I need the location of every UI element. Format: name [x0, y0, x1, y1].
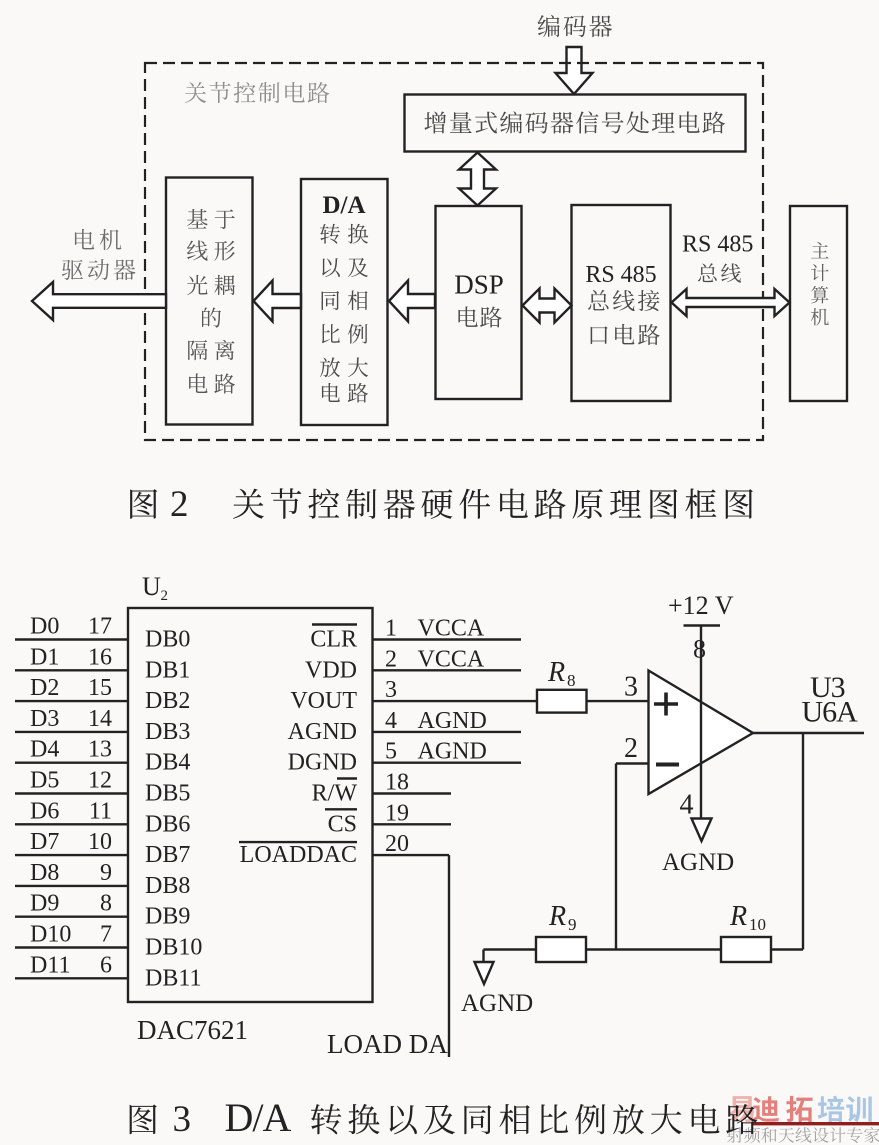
svg-text:3: 3 [624, 672, 638, 703]
svg-text:13: 13 [88, 737, 112, 763]
wire: data line D6 pin 11 [15, 798, 128, 824]
pin label DGND (pin 5) [288, 750, 357, 776]
pin label DB0 [145, 627, 190, 653]
svg-text:D11: D11 [30, 952, 70, 978]
wire: data line D10 pin 7 [15, 922, 128, 948]
block: incremental encoder signal processing circuit [405, 95, 746, 152]
svg-text:8: 8 [567, 671, 576, 690]
wire: inverting input net [616, 764, 649, 950]
caption figure 3 [130, 1095, 758, 1140]
svg-text:AGND: AGND [461, 990, 533, 1017]
wire: feedback net R9/R10 [484, 948, 804, 950]
wire: data line D0 pin 17 [15, 614, 128, 640]
svg-text:17: 17 [88, 614, 112, 640]
svg-text:R: R [548, 901, 566, 932]
svg-text:DSP: DSP [454, 270, 504, 300]
joint control circuit dashed boundary [145, 63, 763, 440]
svg-text:2: 2 [385, 646, 397, 672]
svg-text:DB10: DB10 [145, 935, 202, 961]
wire: encoder input arrow [556, 47, 593, 94]
svg-text:LOAD DA: LOAD DA [327, 1029, 448, 1059]
pin label DB7 [145, 842, 190, 868]
watermark slogan [727, 1127, 879, 1143]
ground: AGND left [461, 950, 533, 1018]
wire: double arrow DSP <-> RS485 [523, 289, 572, 323]
wire: pin 4 AGND [373, 708, 522, 734]
wire: op-amp output [753, 732, 864, 734]
wire: LOADDAC pin 20 net to LOAD DA [448, 855, 450, 1057]
label: motor driver 电机驱动器 [62, 229, 136, 280]
svg-text:AGND: AGND [418, 739, 487, 765]
power: +12 V supply [668, 591, 734, 819]
svg-text:D8: D8 [30, 860, 59, 886]
wire: data line D7 pin 10 [15, 829, 128, 855]
wire: pin 5 AGND [373, 739, 522, 765]
label: R10 [729, 901, 766, 934]
svg-text:DB2: DB2 [145, 688, 190, 714]
svg-text:VCCA: VCCA [418, 616, 485, 642]
svg-text:19: 19 [385, 800, 409, 826]
wire: pin 3 [373, 677, 538, 703]
label: U3 U6A [802, 671, 859, 729]
block: DSP circuit [436, 206, 522, 399]
label: 关节控制电路 [185, 82, 330, 103]
svg-text:2: 2 [624, 733, 638, 764]
svg-text:U6A: U6A [802, 696, 859, 729]
pin label DB2 [145, 688, 190, 714]
svg-text:AGND: AGND [288, 719, 357, 745]
svg-text:DB1: DB1 [145, 657, 190, 683]
svg-text:LOADDAC: LOADDAC [240, 842, 357, 868]
label: encoder 编码器 [538, 15, 612, 37]
wire: arrow to motor driver [32, 282, 166, 320]
svg-text:VDD: VDD [305, 657, 357, 683]
svg-text:D/A: D/A [322, 192, 365, 219]
pin label CS (pin 19) [325, 809, 357, 837]
wire: output to feedback [802, 733, 804, 950]
svg-text:DB9: DB9 [145, 904, 190, 930]
label: op-amp pin 8 [693, 635, 706, 664]
svg-text:D2: D2 [30, 675, 59, 701]
svg-text:D10: D10 [30, 922, 71, 948]
svg-text:10: 10 [88, 829, 112, 855]
svg-text:1: 1 [385, 616, 397, 642]
svg-text:D4: D4 [30, 737, 59, 763]
svg-text:DB11: DB11 [145, 965, 201, 991]
label: U2 [142, 572, 168, 604]
svg-text:D5: D5 [30, 768, 59, 794]
wire: arrow isolation <- D/A [254, 281, 302, 322]
pin label LOADDAC (pin 20) [239, 842, 357, 868]
label: RS 485 bus [682, 232, 753, 283]
svg-text:D0: D0 [30, 614, 59, 640]
svg-text:10: 10 [749, 915, 766, 934]
wire: RS485 bus double arrow [672, 289, 790, 316]
svg-text:U: U [142, 572, 161, 601]
svg-text:R/W: R/W [312, 781, 358, 807]
wire: pin 20 [373, 831, 450, 857]
label: R8 [547, 657, 576, 690]
svg-text:DB4: DB4 [145, 750, 190, 776]
wire: pin 18 [373, 770, 452, 796]
resistor R9 [536, 937, 586, 962]
caption figure 2 [130, 484, 753, 525]
svg-text:5: 5 [385, 739, 397, 765]
svg-text:R: R [547, 657, 565, 688]
pin label DB1 [145, 657, 190, 683]
svg-text:DB3: DB3 [145, 719, 190, 745]
svg-text:7: 7 [100, 922, 112, 948]
pin label DB6 [145, 811, 190, 837]
wire: data line D4 pin 13 [15, 737, 128, 763]
pin label DB3 [145, 719, 190, 745]
svg-text:3: 3 [173, 1099, 192, 1140]
svg-text:9: 9 [100, 860, 112, 886]
wire: data line D11 pin 6 [15, 952, 128, 978]
wire: data line D8 pin 9 [15, 860, 128, 886]
svg-text:3: 3 [385, 677, 397, 703]
svg-text:6: 6 [100, 952, 112, 978]
pin label VDD (pin 2) [305, 657, 357, 683]
resistor R10 [721, 937, 771, 962]
svg-text:DB7: DB7 [145, 842, 190, 868]
svg-text:8: 8 [693, 635, 706, 664]
pin label VOUT (pin 3) [290, 688, 357, 714]
ground: AGND op-amp [662, 819, 734, 877]
block: host computer [790, 206, 847, 401]
pin label DB8 [145, 873, 190, 899]
svg-text:8: 8 [100, 891, 112, 917]
wire: VOUT net [587, 700, 649, 702]
IC U2 DAC7621 body [128, 608, 373, 1002]
op-amp U3 U6A [649, 671, 754, 795]
svg-text:12: 12 [88, 768, 112, 794]
pin label DB9 [145, 904, 190, 930]
pin label AGND (pin 4) [288, 719, 357, 745]
svg-text:VOUT: VOUT [290, 688, 357, 714]
svg-text:+12 V: +12 V [668, 591, 734, 620]
wire: data line D5 pin 12 [15, 768, 128, 794]
svg-text:DB6: DB6 [145, 811, 190, 837]
wire: vertical double arrow encoder-DSP [459, 153, 496, 206]
svg-text:15: 15 [88, 675, 112, 701]
svg-text:DB5: DB5 [145, 781, 190, 807]
wire: data line D2 pin 15 [15, 675, 128, 701]
label: LOAD DA [327, 1029, 448, 1059]
pin label CLR (pin 1) [310, 625, 357, 653]
block: RS485 bus interface circuit [572, 205, 671, 401]
block: D/A conversion and amplification circuit [301, 179, 388, 425]
svg-text:D3: D3 [30, 706, 59, 732]
svg-text:D9: D9 [30, 891, 59, 917]
svg-text:D7: D7 [30, 829, 59, 855]
svg-text:DGND: DGND [288, 750, 357, 776]
svg-text:20: 20 [385, 831, 409, 857]
svg-text:D6: D6 [30, 798, 59, 824]
pin label DB5 [145, 781, 190, 807]
watermark logo 易迪拓培训 [728, 1096, 879, 1126]
svg-text:RS 485: RS 485 [682, 232, 753, 258]
label: op-amp pin 2 [624, 733, 638, 764]
wire: data line D9 pin 8 [15, 891, 128, 917]
resistor R8 [537, 690, 587, 713]
wire: op-amp pin 4 to ground [680, 790, 694, 821]
svg-text:4: 4 [680, 790, 694, 821]
svg-text:RS 485: RS 485 [585, 262, 656, 288]
svg-text:R: R [729, 901, 747, 932]
wire: pin 19 [373, 800, 452, 826]
svg-text:2: 2 [161, 588, 169, 604]
label: DAC7621 [137, 1015, 248, 1045]
svg-text:18: 18 [385, 770, 409, 796]
pin label DB4 [145, 750, 190, 776]
wire: pin 1 VCCA [373, 616, 522, 642]
svg-text:VCCA: VCCA [418, 646, 485, 672]
svg-text:4: 4 [385, 708, 397, 734]
svg-text:AGND: AGND [662, 849, 734, 876]
label: op-amp pin 3 [624, 672, 638, 703]
wire: data line D3 pin 14 [15, 706, 128, 732]
pin label DB10 [145, 935, 202, 961]
block: optocoupler isolation circuit [166, 178, 253, 425]
label: R9 [548, 901, 577, 934]
svg-text:14: 14 [88, 706, 112, 732]
svg-text:CS: CS [328, 811, 357, 837]
svg-text:9: 9 [568, 915, 577, 934]
svg-text:DB0: DB0 [145, 627, 190, 653]
svg-text:CLR: CLR [310, 627, 357, 653]
svg-text:D1: D1 [30, 644, 59, 670]
svg-text:DB8: DB8 [145, 873, 190, 899]
svg-text:11: 11 [89, 798, 112, 824]
wire: arrow D/A <- DSP [389, 281, 435, 322]
svg-text:AGND: AGND [418, 708, 487, 734]
wire: pin 2 VCCA [373, 646, 522, 672]
pin label RW (pin 18) [312, 779, 358, 807]
svg-text:D/A: D/A [225, 1095, 292, 1140]
svg-text:DAC7621: DAC7621 [137, 1015, 248, 1045]
pin label DB11 [145, 965, 201, 991]
svg-text:16: 16 [88, 644, 112, 670]
wire: data line D1 pin 16 [15, 644, 128, 670]
svg-text:2: 2 [170, 484, 189, 525]
